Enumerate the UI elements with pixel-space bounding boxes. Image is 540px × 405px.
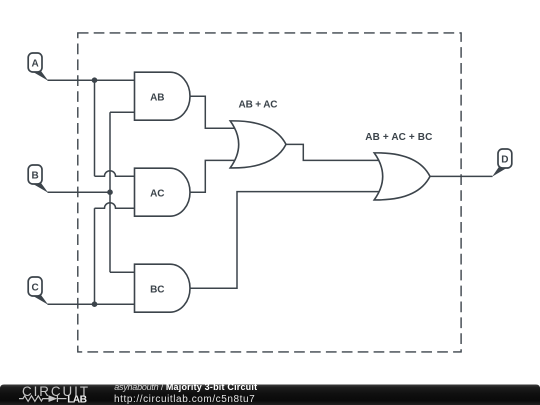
svg-text:AB + AC + BC: AB + AC + BC	[365, 132, 432, 143]
wire C vertical branch	[94, 208, 96, 304]
wire B vertical branch	[109, 112, 111, 272]
junction node A	[92, 77, 98, 83]
pin D tail	[492, 166, 509, 176]
OR gate U1 (AB + AC)	[230, 121, 286, 168]
wire C branch to AC bottom input (hop over B vertical)	[95, 203, 137, 209]
pin B box	[28, 165, 42, 184]
svg-text:asyhabouth / Majority 3-bit Ci: asyhabouth / Majority 3-bit Circuit	[114, 382, 257, 392]
AND gate AC	[135, 168, 191, 216]
wire B horizontal to junction	[48, 191, 111, 193]
wire A horizontal to AB top input	[48, 79, 137, 81]
junction node C	[92, 301, 98, 307]
wire AB output to OR1 top input	[190, 96, 237, 128]
CircuitLab logo resistor + diode symbol	[19, 395, 67, 402]
pin A tail	[31, 71, 49, 81]
wire B to BC top input	[110, 271, 136, 273]
wire AC output to OR1 bottom input	[190, 160, 237, 192]
svg-text:C: C	[31, 282, 38, 293]
wire B to AB bottom input	[110, 111, 136, 113]
svg-text:AB: AB	[150, 92, 164, 103]
junction node B	[107, 189, 113, 195]
AND gate BC	[135, 264, 191, 312]
svg-text:A: A	[31, 58, 38, 69]
CircuitLab logo diode triangle	[49, 395, 58, 402]
svg-text:AB + AC: AB + AC	[239, 100, 278, 111]
AND gate AB	[135, 72, 191, 120]
wire C horizontal to BC bottom input	[48, 303, 137, 305]
wire A vertical branch	[94, 80, 96, 176]
dashed schematic boundary box	[78, 33, 461, 352]
svg-text:AC: AC	[150, 188, 164, 199]
wire A branch to AC top input (hop over B vertical)	[95, 171, 137, 176]
svg-text:D: D	[501, 154, 508, 165]
svg-text:LAB: LAB	[67, 394, 87, 405]
wire OR2 output to pin D	[430, 175, 493, 177]
wire BC output to OR2 bottom input	[190, 192, 381, 289]
wire OR1 output to OR2 top input	[286, 144, 380, 160]
svg-text:B: B	[31, 170, 38, 181]
pin A box	[28, 53, 42, 72]
pin C tail	[31, 295, 49, 305]
pin B tail	[31, 183, 49, 193]
svg-text:BC: BC	[150, 284, 164, 295]
OR gate U2 (AB + AC + BC)	[374, 153, 430, 200]
pin C box	[28, 277, 42, 296]
pin D box	[498, 149, 512, 168]
svg-text:http://circuitlab.com/c5n8tu7: http://circuitlab.com/c5n8tu7	[114, 394, 255, 405]
